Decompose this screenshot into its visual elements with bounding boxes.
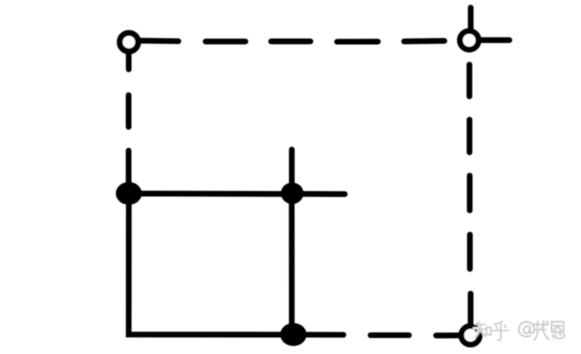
wire: bottom dashed line stub from junction D3 — [300, 332, 343, 338]
wire: right dashed line dash 1 — [467, 65, 473, 97]
wire: bottom dashed line dash 2 — [371, 332, 409, 338]
wire: top dashed line dash 2 — [206, 39, 246, 45]
wire: bottom dashed line dash 3 into node C — [436, 333, 464, 339]
wire: right dashed line dash 5 into node C — [468, 294, 474, 330]
glyph 恩 — [552, 322, 564, 332]
node D3: filled junction dot bottom-right of square — [280, 323, 306, 346]
glyph @ — [519, 322, 535, 337]
node A: open circle terminal top-left — [120, 33, 138, 51]
wire: top dashed line dash 4 — [337, 39, 378, 45]
node D1: filled junction dot top-left of square — [116, 182, 142, 205]
wire: stub above node B — [468, 8, 474, 32]
wire: right dashed line dash 3 — [467, 176, 473, 211]
wire: stub right of node B — [475, 37, 509, 43]
node D2: filled junction dot top-right of square — [281, 183, 304, 205]
glyph 茂 — [533, 324, 548, 326]
wire: right dashed line dash 2 — [467, 120, 473, 153]
wire: inner solid square loop — [129, 194, 292, 335]
wire: top dashed line dash 5 — [404, 38, 444, 44]
node B: open circle terminal top-right — [460, 31, 479, 50]
wire: stub right of junction D2 — [296, 191, 345, 197]
wire: stub above junction D2 — [289, 150, 295, 199]
wire: right dashed line dash 4 — [467, 235, 473, 269]
glyph 乎 — [495, 321, 503, 324]
glyph 知 — [477, 322, 480, 325]
wire: left dashed line dash 3 into junction D1 — [126, 151, 132, 188]
wire: top dashed line segment attached to node A — [137, 38, 178, 44]
wire: left dashed line dash 2 — [126, 95, 132, 127]
wire: left dashed line segment attached to node A — [126, 50, 132, 69]
watermark: 知乎 @茂恩 (hand-drawn glyph strokes, white emboss + gray) — [474, 320, 565, 340]
wire: top dashed line dash 3 — [271, 39, 310, 45]
node C: open circle terminal bottom-right — [461, 326, 480, 345]
